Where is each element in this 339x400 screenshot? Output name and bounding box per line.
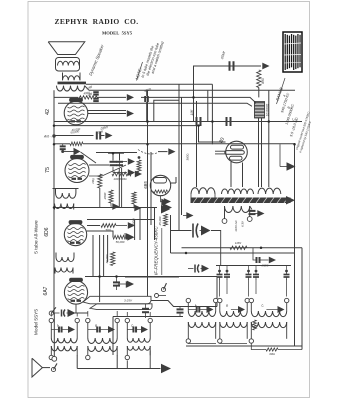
wire vert x207.8 [207, 91, 209, 122]
cap line cord [249, 210, 256, 212]
wire right rail x294.5 [294, 144, 296, 346]
resistor 500 horizontal [101, 224, 116, 228]
wire vert x93 [92, 235, 94, 277]
wire grid line y152.5 [96, 152, 137, 154]
wire meg [253, 248, 256, 260]
arrow y223 [128, 222, 135, 229]
wire plate lead y66 [194, 66, 262, 97]
trimmer bank 1 [218, 270, 221, 273]
wire to arrow V1 [88, 113, 126, 115]
wire line cord arrow [254, 213, 258, 215]
wire right rail x268.8 [268, 91, 270, 187]
cap meg [256, 257, 258, 263]
arrow IF a [126, 233, 133, 240]
wire vert x151 [150, 152, 152, 225]
wire right rail x302 [301, 248, 303, 350]
wire V5 lead a [230, 162, 232, 187]
antenna symbol [32, 358, 42, 377]
svg-text:Ant→: Ant→ [43, 135, 52, 139]
svg-text:2000: 2000 [103, 192, 107, 200]
wire vert x140 [139, 208, 141, 240]
wire unit1 right down [76, 355, 78, 369]
wire trimmer bus y265.5 [216, 265, 291, 267]
resistor vertical x99.8 [98, 174, 102, 188]
arrow under x134 [134, 205, 141, 212]
junction dot 1 [192, 96, 195, 99]
svg-text:25,000: 25,000 [158, 216, 162, 226]
resistor vertical x112 mid [111, 252, 115, 266]
capacitor .1mf x198 [196, 117, 198, 126]
arrow y284 [127, 281, 134, 288]
arrow y135 [105, 132, 112, 139]
arrow bottom bus [161, 364, 171, 374]
arrow y237 [127, 234, 134, 241]
arrow band left [68, 309, 76, 317]
svg-text:75: 75 [45, 167, 51, 173]
junction dot 9 [185, 252, 188, 255]
wire V3 plate [87, 231, 113, 237]
RF coil T3 lower [55, 268, 73, 273]
resistor x113 h [113, 235, 127, 239]
wire stub cap row y135 [54, 135, 94, 137]
arrow plate V1 [127, 110, 134, 117]
svg-text:6D6: 6D6 [44, 227, 50, 236]
transformer secondary group1 [191, 188, 215, 194]
tube V3 6D6 [64, 223, 86, 245]
wire y237b [126, 236, 128, 238]
node ANT junction [52, 134, 55, 137]
junction dot 11 [53, 143, 56, 146]
svg-text:30Ω: 30Ω [269, 352, 275, 356]
trimmer stubs [219, 266, 221, 270]
resistor 100k horizontal [112, 172, 133, 176]
wire V2b [112, 167, 114, 173]
svg-text:110V.AC: 110V.AC [234, 219, 238, 231]
rubber stamp box [283, 32, 302, 72]
wire osc input [171, 230, 192, 232]
node dot x139 [138, 156, 141, 159]
wire V5 lead b [242, 163, 244, 188]
antenna coil unit 3 [125, 318, 129, 322]
arrow osc input [201, 226, 211, 236]
wire diag tube75 [89, 165, 126, 176]
switch band left [49, 311, 53, 315]
RF coil T3 upper [56, 257, 74, 262]
wire band left [53, 312, 59, 314]
wire vert x193.5b [193, 97, 195, 121]
terminal AC left [222, 219, 227, 224]
arrow core right [286, 196, 295, 205]
antenna lead [42, 367, 50, 369]
arrow V2a [128, 158, 135, 165]
resistor 890 ohm [257, 70, 261, 88]
primary lead left [224, 206, 226, 219]
arrow chassis top right [262, 63, 269, 70]
box lower border [113, 316, 183, 318]
resistor in bus G [70, 142, 83, 146]
wire bus F y125.6 [54, 125, 196, 127]
tube V4 6A7 [64, 281, 87, 304]
wire bottom right bus [186, 345, 302, 347]
resistor 400 in bus C [78, 96, 97, 99]
wire vert x212.4 [211, 84, 213, 144]
transformer secondary group2 [222, 189, 254, 194]
capacitor .02mf [96, 132, 98, 140]
svg-text:100,000Ω: 100,000Ω [113, 177, 127, 181]
svg-text:6A7: 6A7 [43, 286, 49, 295]
arrow line cord [257, 210, 264, 217]
wire bus L y276.5 [85, 276, 217, 278]
arrow y151.5 left [74, 148, 81, 156]
wire bus B y90.5 [89, 89, 295, 91]
arrow on bus C [127, 94, 134, 101]
resistor vertical x139 [137, 160, 141, 172]
primary lead right [249, 206, 251, 217]
wire bus I y207.5 [54, 207, 157, 209]
wire IF a [124, 233, 126, 237]
wire L-step x154 [154, 100, 179, 121]
wire bus A y84 [86, 83, 212, 85]
wire antenna up [53, 313, 55, 356]
wire cap80 down [199, 126, 226, 143]
speaker field coil box [56, 58, 80, 72]
wire bus G y144 [54, 143, 70, 145]
arrow bus I [163, 203, 173, 212]
speaker cone [48, 42, 85, 55]
wire vert x154.5 [154, 208, 156, 241]
junction dot 10 [293, 143, 296, 146]
wire V6a [160, 196, 162, 202]
oscillator coil unit B [218, 298, 222, 302]
wire under x134 [133, 204, 135, 208]
junction dot 2 [146, 120, 149, 123]
wire under x111 [110, 203, 112, 207]
tube V5 80 [226, 141, 248, 163]
IF box left border [178, 84, 180, 230]
wire trimmer downleads [219, 280, 221, 297]
wire bus J y219.5 [87, 219, 154, 221]
junction dot 5 [98, 275, 101, 278]
tube V6 6B5 [150, 175, 170, 195]
arrow V6a [164, 198, 171, 205]
svg-text:890: 890 [261, 78, 265, 84]
tube V2 75 [65, 159, 89, 183]
coupling caps V2 [110, 161, 117, 163]
arrow right y166 [287, 162, 296, 171]
wire vert x107.6 [107, 235, 109, 262]
note underline [137, 62, 143, 81]
wire bus D y101 [58, 103, 252, 106]
capacitor x180 y311 [177, 308, 184, 310]
capacitor .05mf top [229, 61, 231, 71]
transformer core hatched [191, 198, 291, 204]
wire unit3 right down [149, 351, 151, 369]
arrow cathode 75 [135, 171, 142, 178]
IF label underline [161, 228, 163, 275]
junction dot 12 [53, 124, 56, 127]
wire unit2 right down [116, 355, 118, 369]
wire vert x103.6 [103, 235, 105, 277]
cap k small y268 [194, 265, 196, 273]
svg-text:1Mg: 1Mg [91, 178, 95, 184]
junction dot 6 [115, 275, 118, 278]
wire bus E y121.5 [54, 121, 302, 123]
wire V2a [119, 162, 121, 167]
resistor 30 ohm [266, 348, 278, 351]
wire under bar left [183, 215, 187, 217]
output transformer primary leads [62, 73, 64, 81]
capacitor x116 y284 [113, 281, 120, 283]
wire unit3 left down [126, 361, 128, 369]
wire bus C y97.4 left b [97, 96, 126, 98]
field coil winding [58, 61, 80, 65]
tube V2 grid cap [71, 155, 84, 158]
tuning gang frame upper [83, 296, 151, 304]
wire unit tops [50, 313, 52, 317]
capacitor .1mf x228 [226, 117, 228, 126]
wire secondary to bus top [85, 86, 90, 91]
svg-text:49,000: 49,000 [105, 254, 109, 263]
svg-text:42: 42 [45, 109, 51, 115]
svg-text:ZEPHYR RADIO CO.: ZEPHYR RADIO CO. [54, 17, 138, 26]
svg-text:300Ω: 300Ω [186, 153, 190, 161]
wire vert x99.6 [99, 235, 101, 302]
resistor vertical x111 [109, 190, 113, 203]
oscillator coil unit C [249, 298, 253, 302]
antenna coil unit 1 [49, 318, 53, 322]
wire core left [159, 201, 162, 203]
wire winding down a [258, 118, 260, 187]
tube V6 side stub [171, 182, 176, 184]
arrow under bar left [186, 212, 193, 219]
range table underline [277, 78, 286, 104]
cap ant x62.7 [60, 145, 66, 147]
cap osc input [192, 224, 194, 238]
capacitor x145.5 [142, 308, 149, 310]
wire V2 plate [89, 164, 109, 166]
arrow meg [269, 257, 276, 264]
dashed gang link [138, 150, 158, 154]
arrow k small y268 [202, 265, 210, 273]
svg-text:3-25V: 3-25V [124, 299, 133, 303]
node dot x62.7 [61, 150, 64, 153]
wire diag to tube75 [81, 152, 97, 163]
junction dot 15 [268, 120, 271, 123]
wire bus C y97.4 left [54, 96, 78, 98]
wire bottom bus [77, 368, 160, 370]
arrow IF b [126, 281, 133, 288]
arrow V6b [161, 205, 170, 214]
RF coil T2 lower [55, 204, 74, 209]
arrow y151.5 right [168, 148, 175, 155]
wire y151.5 left [63, 151, 74, 153]
wire vert x196.5 [196, 101, 198, 187]
terminal AC right [247, 217, 252, 222]
output transformer primary [63, 76, 80, 81]
transformer primary [225, 206, 250, 213]
wire 30 ohm line [251, 343, 266, 349]
RF coil T2 upper [56, 193, 76, 198]
svg-text:MODEL 5SY5: MODEL 5SY5 [102, 31, 133, 36]
wire 6A7 cathode down [75, 304, 77, 313]
svg-text:Model 5SY5: Model 5SY5 [34, 309, 40, 335]
wire osc arrow down [211, 231, 221, 266]
junction dot 13 [146, 143, 149, 146]
wire plate V1 [88, 110, 126, 112]
switch osc terminal [155, 294, 159, 298]
antenna switch [51, 367, 55, 371]
junction dot 4 [112, 152, 115, 155]
wire k small y268 [188, 268, 194, 270]
IF box right border segment [171, 252, 296, 254]
voltage divider winding 10000 ohm [255, 102, 265, 119]
wire winding down b [261, 118, 263, 187]
wire bus C y97.4 right [141, 97, 255, 103]
wire vert x147.5 [147, 91, 149, 296]
vertical rail pair x119.5 [118, 168, 120, 208]
wire y151.5 to arrow [158, 151, 168, 153]
transformer secondary group3 [258, 188, 281, 194]
tube V3 grid cap [69, 221, 82, 224]
resistor vertical x165 [164, 214, 168, 226]
antenna terminal [52, 356, 57, 361]
wire vert x134.6 [134, 220, 136, 241]
trimmer bank 3 [285, 270, 288, 273]
svg-text:IF-FREQUENCY-456KC: IF-FREQUENCY-456KC [154, 226, 159, 275]
wire left rail x54 [53, 90, 55, 313]
small cap x146 [144, 96, 146, 102]
wire bus K y225.5 [87, 225, 100, 227]
wire bus G y144 right [83, 143, 295, 145]
oscillator coil unit A [186, 298, 190, 302]
junction dot 14 [211, 120, 214, 123]
IF box bottom border [125, 276, 179, 278]
wire y284 [118, 283, 126, 285]
wire box top y247.8 [182, 247, 303, 249]
tuning gang frame lower [90, 304, 152, 310]
wire IF b [124, 284, 126, 286]
wire osc bottoms [188, 342, 216, 344]
stamp text stripes [284, 34, 286, 70]
resistor vertical x134 [132, 192, 136, 204]
junction dot 3 [197, 124, 200, 127]
junction dot 8 [260, 247, 263, 250]
antenna coil unit 2 [86, 318, 90, 322]
wire y223 [116, 225, 127, 227]
output transformer secondary [57, 86, 85, 91]
tube V1 42 [64, 101, 88, 125]
resistor 10W [230, 246, 247, 250]
switch osc [161, 287, 165, 291]
tube V1 grid cap [70, 98, 83, 101]
cap band left [61, 310, 63, 317]
box step lines [151, 301, 217, 307]
tube V4 grid cap [70, 278, 83, 281]
arrow V2b [128, 169, 135, 176]
wire caps top [112, 153, 114, 161]
wire to arrow y135 [100, 135, 104, 137]
wire right y166 [280, 166, 287, 168]
svg-text:50,000: 50,000 [116, 240, 125, 244]
capacitor .1mf pair at x96 [93, 91, 99, 93]
junction dot 7 [53, 206, 56, 209]
wire core right [284, 199, 287, 201]
arrow core left [161, 199, 168, 206]
trimmer bank 2 [247, 270, 250, 273]
wire x116 y284 [116, 277, 118, 283]
svg-text:5 tube All-Wave: 5 tube All-Wave [34, 220, 40, 254]
output transformer core [58, 82, 87, 85]
arrow under x111 [112, 203, 119, 210]
